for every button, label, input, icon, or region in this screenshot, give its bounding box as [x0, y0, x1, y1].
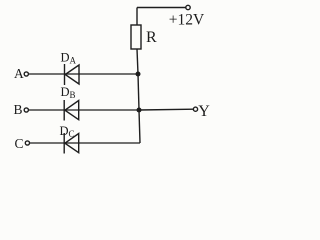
output terminal Y [193, 107, 197, 111]
node junction at row B [137, 108, 142, 113]
diode DC cathode bar [63, 133, 65, 154]
wire: resistor bottom to node A junction [137, 49, 138, 74]
diode DB triangle [65, 101, 79, 120]
resistor R [131, 25, 141, 49]
wire: common vertical B to C corner [139, 110, 140, 143]
input terminal A [24, 72, 28, 76]
diode DA cathode bar [64, 64, 66, 85]
wire: input C to corner of common line [30, 142, 140, 144]
wire: +12V rail horizontal [137, 7, 186, 9]
svg-text:B: B [14, 102, 23, 117]
wire: input B to common node [29, 109, 139, 111]
diode DC triangle [65, 134, 79, 153]
input terminal B [24, 108, 28, 112]
wire: input A to common node [29, 73, 138, 75]
wire: common vertical A to B [138, 74, 139, 110]
svg-text:A: A [14, 66, 24, 81]
wire: node B to output Y [139, 108, 193, 111]
node junction at row A [136, 72, 141, 77]
wire: rail down to resistor top [136, 8, 138, 26]
input terminal C [25, 141, 29, 145]
diode DB cathode bar [63, 100, 65, 121]
svg-text:C: C [15, 136, 24, 151]
diode DA triangle [65, 65, 79, 84]
svg-text:Y: Y [198, 103, 210, 120]
svg-text:+12V: +12V [169, 12, 205, 29]
+12V terminal [186, 5, 190, 9]
svg-text:R: R [146, 29, 157, 46]
